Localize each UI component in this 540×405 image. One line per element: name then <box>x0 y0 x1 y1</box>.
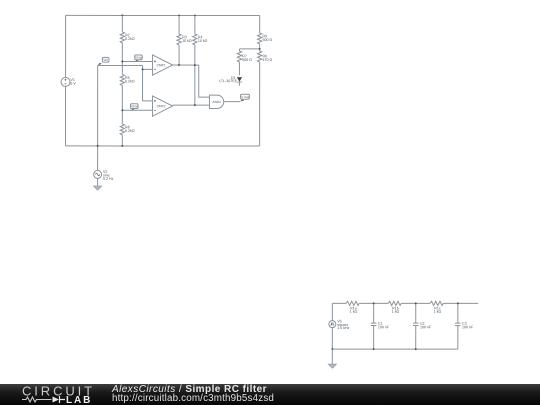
capacitor C1 <box>371 303 390 349</box>
wire ground stem RC <box>331 349 333 364</box>
wire top rail <box>66 14 260 16</box>
wire V2 to ground <box>97 178 99 186</box>
resistor R4 <box>193 15 208 105</box>
svg-text:100 nF: 100 nF <box>462 325 474 329</box>
wire to CMP1 - input <box>143 68 153 70</box>
wire rail seg3 <box>401 302 430 304</box>
wire to CMP2 + input <box>143 100 153 102</box>
voltage source V2 sine <box>94 170 114 181</box>
ground main <box>94 186 102 190</box>
wire left rail lower <box>65 86 67 145</box>
capacitor C2 <box>413 303 432 349</box>
resistor R2 <box>120 15 135 61</box>
junction at CMP1 - branch <box>142 68 144 70</box>
wire LED branch top <box>239 48 259 50</box>
svg-text:1 kΩ: 1 kΩ <box>392 310 400 314</box>
wire left rail <box>65 15 67 77</box>
wire CMP1 output to AND1 <box>173 65 209 97</box>
wire RC top rail <box>332 302 346 304</box>
footer bar <box>0 384 540 405</box>
wire Vin vertical down to V2 <box>97 66 99 171</box>
footer title <box>112 384 267 395</box>
junction R4 top <box>194 14 196 16</box>
flag V out <box>240 94 249 102</box>
resistor R1a <box>346 301 359 314</box>
wire Vin branch vertical <box>142 66 144 101</box>
op-amp comparator CMP1 <box>153 55 173 75</box>
junction R3 top <box>178 14 180 16</box>
resistor R3 <box>177 15 192 65</box>
svg-text:0.2 Hz: 0.2 Hz <box>103 177 114 181</box>
svg-text:V out: V out <box>241 95 249 99</box>
svg-text:6.2kΩ: 6.2kΩ <box>125 37 135 41</box>
AND gate AND1 <box>209 95 223 108</box>
wire AND1 output <box>224 101 240 103</box>
voltage source V5 square <box>329 303 350 349</box>
resistor R5 <box>120 62 135 111</box>
junction V5 bottom <box>331 348 333 350</box>
wire rail seg4 <box>443 302 478 304</box>
junction R3 output <box>178 64 180 66</box>
svg-text:10 kΩ: 10 kΩ <box>198 39 208 43</box>
wire rail seg2 <box>359 302 388 304</box>
wire Vbot node to CMP2 - <box>122 109 152 111</box>
svg-text:10 kΩ: 10 kΩ <box>182 39 192 43</box>
resistor R6 <box>258 49 273 146</box>
junction divider at bottom rail <box>121 145 123 147</box>
ground RC <box>329 364 337 368</box>
resistor R1b <box>388 301 401 314</box>
svg-text:5 V: 5 V <box>70 82 76 86</box>
svg-text:LTL-307EE: LTL-307EE <box>219 79 238 83</box>
flag Vin <box>98 57 109 65</box>
junction Vin at bottom rail <box>97 145 99 147</box>
junction C2 top <box>415 302 417 304</box>
svg-text:CMP1: CMP1 <box>157 63 166 67</box>
wire bottom rail <box>66 145 260 147</box>
junction node Vtop <box>121 61 123 63</box>
svg-text:100 nF: 100 nF <box>378 325 390 329</box>
svg-text:500 Ω: 500 Ω <box>242 58 252 62</box>
svg-text:1 kΩ: 1 kΩ <box>350 310 358 314</box>
resistor R8 <box>120 110 135 146</box>
junction C1 bottom <box>373 348 375 350</box>
CircuitLab logo <box>0 384 110 405</box>
resistor R7 <box>237 49 252 75</box>
junction R4 output <box>194 104 196 106</box>
resistor R1c <box>430 301 443 314</box>
junction divider top <box>121 14 123 16</box>
voltage source V1 <box>61 77 76 86</box>
svg-text:1.5 kHz: 1.5 kHz <box>337 326 349 330</box>
flag Vtop <box>135 55 143 62</box>
flag Vbot <box>130 104 138 111</box>
wire CMP2 output to AND1 <box>173 104 209 106</box>
svg-text:100 nF: 100 nF <box>420 325 432 329</box>
junction R9 R6 node <box>259 48 261 50</box>
svg-text:CMP2: CMP2 <box>157 104 166 108</box>
svg-text:Vbot: Vbot <box>131 104 138 108</box>
capacitor C3 <box>455 303 474 349</box>
svg-text:6.2kΩ: 6.2kΩ <box>125 129 135 133</box>
junction R4 crossing <box>194 64 196 66</box>
wire Vin horizontal <box>98 65 143 67</box>
junction C3 top <box>457 302 459 304</box>
svg-text:Vtop: Vtop <box>135 56 142 60</box>
junction C1 top <box>373 302 375 304</box>
svg-text:LAB: LAB <box>66 395 92 405</box>
svg-text:6.2kΩ: 6.2kΩ <box>125 79 135 83</box>
wire RC bottom rail <box>332 348 458 350</box>
footer url <box>112 393 274 404</box>
svg-text:470 Ω: 470 Ω <box>262 58 272 62</box>
svg-text:1 kΩ: 1 kΩ <box>434 310 442 314</box>
op-amp comparator CMP2 <box>153 96 173 116</box>
junction node Vbot <box>121 109 123 111</box>
svg-text:500 Ω: 500 Ω <box>262 38 272 42</box>
svg-text:Vin: Vin <box>103 58 108 62</box>
resistor R9 <box>258 15 273 48</box>
svg-text:AND1: AND1 <box>213 100 222 104</box>
junction C2 bottom <box>415 348 417 350</box>
wire Vtop node to CMP1 + <box>122 61 152 63</box>
LED D1 <box>219 76 242 86</box>
